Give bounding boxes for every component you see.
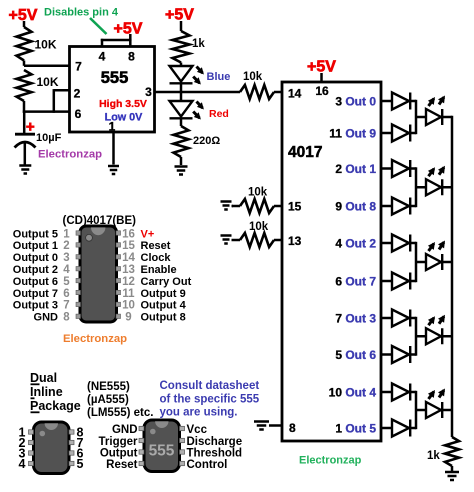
svg-text:10K: 10K [35,38,57,52]
R7 value label 10k [249,221,269,233]
common cathode rail [451,116,454,437]
DIP16 left pin number 5 [63,276,70,288]
svg-text:GND: GND [112,424,138,436]
svg-text:of the specific 555: of the specific 555 [160,394,260,406]
svg-text:High 3.5V: High 3.5V [99,98,147,110]
DIP8 555 left label Output [100,448,138,460]
ground (R7) [221,236,232,244]
svg-text:4017: 4017 [288,144,322,161]
R4 value label 220Ω [193,135,220,147]
DIP16 right label Output 9 [141,288,186,300]
R1 value label 10K [35,38,57,52]
DIP16 right pin number 9 [125,312,131,324]
svg-text:5 Out 6: 5 Out 6 [335,348,376,362]
svg-text:15: 15 [122,240,135,252]
wire pin row to diode (row 1) [381,100,392,103]
svg-text:+5V: +5V [114,21,143,38]
svg-text:3 Out 0: 3 Out 0 [335,95,376,109]
DIP8 555 left label Trigger [99,436,139,448]
steering diode D14 [392,235,410,252]
wire diode to join (row 3) [410,167,416,170]
svg-text:Output 4: Output 4 [141,300,187,312]
DIP16 left label GND [34,312,59,324]
wire pin row to diode (row 5) [381,242,392,245]
join wire group 4 [415,317,418,356]
DIP16 right pin number 16 [122,228,135,240]
DIP16 pin stubs [76,231,121,319]
DIP16 left label Output 2 [13,264,58,276]
svg-text:V+: V+ [141,228,155,240]
wire ground to 4017 pin 8 [269,424,282,427]
svg-text:2: 2 [63,240,69,252]
pin 8 label [289,421,296,435]
wire D1 to pin3 net [180,85,183,93]
wire R1 to node A [23,61,26,66]
DIP16 right pin number 12 [122,276,135,288]
pin 16 label [315,84,329,98]
DIP16 left label Output 3 [13,300,58,312]
wire 555 pin 2 to node B [54,89,71,113]
pin 15 label [288,200,302,214]
R2 value label 10K [37,75,59,89]
svg-text:5: 5 [77,457,84,471]
pin 3 label Out 0 [335,95,376,109]
svg-text:4 Out 2: 4 Out 2 [335,237,376,251]
U2 label 4017 [288,144,322,161]
svg-text:7: 7 [75,60,82,74]
steering diode D12 [392,160,410,177]
svg-text:Vcc: Vcc [187,424,208,436]
steering diode D17 [392,346,410,363]
LED D21 arrows [428,166,445,177]
pin 1 label [109,120,116,134]
resistor R7 10k [240,233,274,247]
svg-text:12: 12 [122,276,135,288]
svg-text:Low 0V: Low 0V [105,112,144,124]
DIP16 left pin number 3 [63,252,69,264]
DIP16 left pin number 7 [63,300,69,312]
DIP8 generic right pin 8 [77,426,84,440]
resistor R1 10K [17,27,32,61]
wire pin row to diode (row 3) [381,167,392,170]
note (LM555) etc. [87,407,153,419]
svg-text:Output 3: Output 3 [13,300,58,312]
note consult datasheet line 1 [160,380,260,392]
svg-text:Enable: Enable [141,264,177,276]
svg-text:Reset: Reset [141,240,171,252]
DIP16 right pin number 10 [122,300,135,312]
wire node B to capacitor C1 [23,112,26,134]
LED D2 arrows [193,102,204,120]
svg-text:13: 13 [122,264,135,276]
output LED D20 [426,109,442,125]
+5V supply label (left divider) [9,7,38,24]
output LED D21 [426,179,442,195]
svg-text:Carry Out: Carry Out [141,276,192,288]
note consult datasheet line 2 [160,394,260,406]
DIP16 right pin number 14 [122,252,135,264]
wire bracket pins 4-8 [101,39,132,48]
resistor R5 10k (clock) [240,85,274,99]
wire pin row to diode (row 10) [381,427,392,430]
DIP16 left label Output 7 [13,288,58,300]
pin 11 label Out 9 [329,127,376,141]
DIP16 right pin number 11 [122,288,135,300]
capacitor C1 10uF top plate [15,133,35,136]
svg-text:1k: 1k [427,450,440,462]
ground (C1) [19,166,31,174]
R3 value label 1k [192,38,205,50]
note Disables pin 4 (green) [44,7,119,19]
svg-text:555: 555 [101,69,129,87]
callout line to pin 4 [90,18,107,34]
wire diode to join (row 8) [410,353,416,356]
LED D23 arrows [428,315,445,326]
U1 note High 3.5V [99,98,147,110]
wire diode to join (row 10) [410,427,416,430]
steering diode D16 [392,310,410,327]
U1 label 555 [101,69,129,87]
+5V supply label (LED branch) [165,7,194,24]
svg-text:Output 1: Output 1 [13,240,58,252]
join wire group 3 [415,242,418,282]
svg-text:3: 3 [145,85,152,99]
svg-text:Threshold: Threshold [187,448,243,460]
resistor R8 1k [445,437,459,466]
pin 4 label [99,50,106,64]
svg-text:4: 4 [99,50,106,64]
svg-text:Output 2: Output 2 [13,264,58,276]
svg-text:(LM555) etc.: (LM555) etc. [87,407,153,419]
svg-text:16: 16 [122,228,135,240]
pin 6 label Out 7 [335,275,376,289]
pin 13 label [288,234,302,248]
DIP8 generic package body [34,422,70,474]
wire LED to rail group 3 [442,261,452,264]
wire pin row to diode (row 4) [381,205,392,208]
DIP16 right label Carry Out [141,276,192,288]
R8 value label 1k [427,450,440,462]
op-amp/timer IC U1 555 body [70,47,155,133]
+5V supply label (555 pins 4,8) [114,21,143,38]
svg-text:Discharge: Discharge [187,436,243,448]
svg-text:Clock: Clock [141,252,172,264]
DIP16 right pin number 15 [122,240,135,252]
svg-text:6: 6 [63,288,69,300]
resistor R4 220 [174,126,189,157]
DIP8 generic right pin 6 [77,447,84,461]
wire LED to rail group 1 [442,116,452,119]
wire R8 to ground [451,466,454,471]
pin 14 label [288,87,302,101]
wire LED to rail group 4 [442,335,452,338]
DIP8 555 right label Discharge [187,436,243,448]
join wire group 2 [415,167,418,207]
svg-text:Output 9: Output 9 [141,288,186,300]
wire 555 pin 1 to ground [112,132,115,165]
svg-text:Output: Output [100,448,138,460]
svg-text:14: 14 [122,252,135,264]
svg-text:10k: 10k [243,71,263,83]
resistor R3 1k [173,31,190,63]
wire R2 to node B [23,101,26,113]
svg-text:10: 10 [122,300,135,312]
DIP8 generic left pin 2 [19,436,26,450]
wire pin row to diode (row 2) [381,132,392,135]
wire +5V to pin8 bracket [129,34,132,41]
svg-text:5: 5 [63,276,70,288]
svg-text:Electronzap: Electronzap [63,333,127,345]
svg-text:Consult datasheet: Consult datasheet [160,380,260,392]
output LED D23 [426,328,442,344]
svg-text:Electronzap: Electronzap [299,455,362,467]
svg-text:4: 4 [63,264,70,276]
LED D1 blue [170,66,193,83]
ground (555 pin 1) [108,166,119,174]
DIP16 title (CD)4017(BE) [63,215,137,227]
svg-text:2: 2 [74,87,81,101]
svg-text:6: 6 [75,107,82,121]
wire ground to R7 [232,239,241,242]
pin 4 label Out 2 [335,237,376,251]
pin 2 label [74,87,81,101]
ground (R8) [445,472,459,480]
wire 555 pin 3 net [155,91,241,94]
LED D24 arrows [428,389,445,400]
note (NE555) [87,381,130,393]
DIP8 generic right pin 5 [77,457,84,471]
DIP16 left label Output 0 [13,252,58,264]
svg-text:10 Out 4: 10 Out 4 [329,386,377,400]
svg-text:Output 5: Output 5 [13,228,58,240]
svg-text:16: 16 [315,84,329,98]
DIP8 555 right label Vcc [187,424,208,436]
svg-text:1k: 1k [192,38,205,50]
svg-text:7 Out 3: 7 Out 3 [335,312,376,326]
svg-text:15: 15 [288,200,302,214]
svg-text:you are using.: you are using. [160,407,238,419]
label Blue [207,71,231,83]
Electronzap watermark (purple) [38,149,102,161]
svg-text:Package: Package [30,399,81,413]
DIP8 555 left label GND [112,424,138,436]
capacitor C1 curved plate [15,142,36,148]
svg-text:Inline: Inline [30,385,63,399]
svg-text:Reset: Reset [106,459,137,471]
ground (4017 pin 8) [254,422,269,430]
wire join to LED group 3 [416,261,426,264]
wire pin3 net to D2 [180,91,183,101]
DIP16 right label V+ [141,228,155,240]
label Red [209,108,229,120]
steering diode D13 [392,198,410,215]
DIP16 right label Enable [141,264,177,276]
svg-text:8: 8 [63,312,70,324]
steering diode D10 [392,93,410,110]
DIP8 555 package body [144,420,180,472]
ground (R6) [221,202,234,210]
pin 8 label [128,50,135,64]
steering diode D11 [392,125,410,142]
wire R4 to ground [180,157,183,165]
wire join to LED group 2 [416,186,426,189]
DIP16 right label Reset [141,240,171,252]
svg-text:14: 14 [288,87,302,101]
R5 value label 10k [243,71,263,83]
pin 10 label Out 4 [329,386,377,400]
DIP16 left pin number 4 [63,264,70,276]
pin 7 label Out 3 [335,312,376,326]
svg-text:Output 0: Output 0 [13,252,58,264]
node B wire to 555 pin 6 [23,110,71,113]
wire diode to join (row 6) [410,280,416,283]
svg-text:4: 4 [19,457,26,471]
DIP16 right pin number 13 [122,264,135,276]
DIP8 555 right label Threshold [187,448,243,460]
resistor R2 10K [17,70,32,101]
svg-text:3: 3 [63,252,69,264]
wire LED to rail group 2 [442,186,452,189]
DIP16 left label Output 1 [13,240,58,252]
wire pin row to diode (row 8) [381,353,392,356]
DIP16 left pin number 6 [63,288,69,300]
DIP8 generic right pin 7 [77,436,84,450]
Electronzap watermark (green) [299,455,362,467]
DIP8 555 pin stubs [139,426,185,465]
wire R5 to 4017 pin 14 [274,91,282,94]
pin 5 label Out 6 [335,348,376,362]
wire +5V to R1 [23,21,26,27]
note consult datasheet line 3 [160,407,238,419]
pin 6 label [75,107,82,121]
Electronzap watermark (orange) [63,333,127,345]
svg-text:1: 1 [63,228,70,240]
LED D2 red [170,101,193,118]
DIP16 left label Output 6 [13,276,58,288]
resistor R6 10k [240,199,274,213]
svg-text:Output 6: Output 6 [13,276,58,288]
svg-text:+5V: +5V [307,59,336,76]
svg-text:1 Out 5: 1 Out 5 [335,422,376,436]
wire C1 to ground [24,142,27,165]
svg-text:Control: Control [187,459,228,471]
DIP16 left label Output 5 [13,228,58,240]
wire R6 to 4017 pin 15 [274,205,282,208]
svg-text:(µA555): (µA555) [87,394,129,406]
wire join to LED group 5 [416,409,426,412]
DIP16 right label Output 4 [141,300,187,312]
wire join to LED group 1 [416,116,426,119]
svg-text:10µF: 10µF [36,132,62,144]
svg-text:10k: 10k [248,187,268,199]
svg-text:2 Out 1: 2 Out 1 [335,162,376,176]
svg-text:11 Out 9: 11 Out 9 [329,127,376,141]
svg-text:9 Out 8: 9 Out 8 [335,200,376,214]
DIP8 generic pin stubs [29,430,75,466]
wire pin row to diode (row 9) [381,391,392,394]
wire LED to rail group 5 [442,409,452,412]
DIP16 left pin number 8 [63,312,70,324]
ground (R4) [175,167,188,175]
DIP16 left pin number 1 [63,228,70,240]
output LED D22 [426,254,442,270]
svg-text:7: 7 [63,300,69,312]
LED D1 arrows [193,67,204,85]
+5V supply label (4017 pin 16) [307,59,336,76]
wire +5V to R3 [180,21,183,31]
svg-text:Disables pin 4: Disables pin 4 [44,7,119,19]
capacitor C1 polarity + [26,119,35,136]
DIP8 generic left pin 1 [19,426,26,440]
DIP16 package body [80,226,117,322]
node A wire to 555 pin 7 [24,65,71,68]
steering diode D19 [392,420,410,437]
DIP16 left pin number 2 [63,240,69,252]
steering diode D15 [392,273,410,290]
svg-text:10k: 10k [249,221,269,233]
steering diode D18 [392,384,410,401]
svg-text:Red: Red [209,108,229,120]
pin 7 label [75,60,82,74]
svg-text:GND: GND [34,312,59,324]
svg-text:10K: 10K [37,75,59,89]
DIP8 555 left label Reset [106,459,137,471]
counter IC U2 4017 body [282,82,381,441]
svg-text:11: 11 [122,288,135,300]
svg-text:6 Out 7: 6 Out 7 [335,275,376,289]
svg-text:220Ω: 220Ω [193,135,220,147]
svg-text:Output 8: Output 8 [141,312,186,324]
svg-text:(NE555): (NE555) [87,381,130,393]
wire diode to join (row 7) [410,317,416,320]
svg-text:555: 555 [149,443,175,460]
svg-text:8: 8 [289,421,296,435]
wire R3 to LED D1 [180,63,183,67]
wire ground to R6 [232,205,241,208]
pin 1 label Out 5 [335,422,376,436]
output LED D24 [426,402,442,418]
wire diode to join (row 1) [410,100,416,103]
svg-text:Output 7: Output 7 [13,288,58,300]
note Dual Inline Package [30,371,81,413]
LED D22 arrows [428,241,445,252]
wire +5V to pin 16 [320,73,323,82]
wire diode to join (row 4) [410,205,416,208]
join wire group 1 [415,100,418,134]
pin 3 label [145,85,152,99]
svg-text:13: 13 [288,234,302,248]
wire diode to join (row 5) [410,242,416,245]
wire R7 to 4017 pin 13 [274,239,282,242]
wire diode to join (row 9) [410,391,416,394]
pin 2 label Out 1 [335,162,376,176]
svg-text:Blue: Blue [207,71,231,83]
svg-text:9: 9 [125,312,131,324]
R6 value label 10k [248,187,268,199]
DIP8 generic left pin 3 [19,447,26,461]
svg-text:8: 8 [128,50,135,64]
C1 value label 10µF [36,132,62,144]
DIP8 generic left pin 4 [19,457,26,471]
join wire group 5 [415,391,418,429]
DIP8 555 right label Control [187,459,228,471]
svg-text:Electronzap: Electronzap [38,149,102,161]
wire pin row to diode (row 7) [381,317,392,320]
wire join to LED group 4 [416,335,426,338]
svg-text:+5V: +5V [165,7,194,24]
pin 9 label Out 8 [335,200,376,214]
U1 note Low 0V [105,112,144,124]
